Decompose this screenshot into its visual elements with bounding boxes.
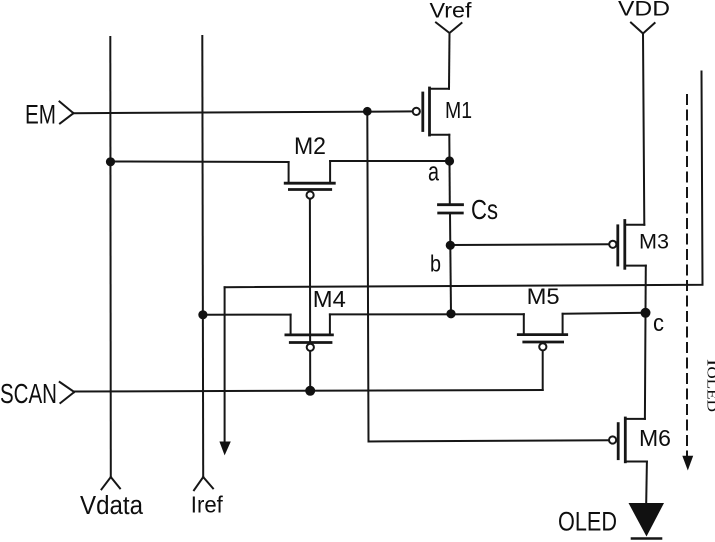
terminal fork EM	[60, 102, 74, 124]
wire EM to M6 gate	[369, 440, 609, 441]
wire capacitor to node b	[449, 213, 451, 245]
junction dot SCAN / gates	[305, 386, 315, 396]
svg-text:M5: M5	[527, 284, 560, 309]
wire Iref vertical	[201, 36, 204, 477]
wire M5 gate riser	[542, 351, 544, 391]
wire node c to M6	[644, 313, 647, 419]
svg-text:EM: EM	[25, 99, 56, 129]
svg-text:M2: M2	[294, 133, 326, 160]
transistor M1	[413, 88, 450, 161]
wire node b to M3 gate	[450, 243, 609, 246]
svg-text:M1: M1	[445, 97, 472, 123]
transistor M3	[609, 221, 646, 313]
junction dot EM branch	[363, 107, 372, 116]
transistor M5	[518, 314, 566, 351]
svg-text:VDD: VDD	[618, 0, 670, 21]
svg-text:M3: M3	[639, 230, 669, 254]
dashed current arrow IOLED	[686, 95, 688, 456]
svg-text:c: c	[653, 310, 664, 337]
svg-text:SCAN: SCAN	[0, 378, 57, 409]
transistor M2	[285, 161, 334, 199]
svg-text:Vdata: Vdata	[80, 492, 144, 520]
wire EM horizontal	[74, 111, 414, 113]
wire long horizontal mid (to right rail)	[225, 72, 703, 288]
wire M2 gate to SCAN	[309, 199, 311, 391]
terminal fork Iref	[194, 477, 213, 490]
wire Vdata vertical	[109, 37, 112, 477]
svg-text:OLED: OLED	[558, 507, 617, 537]
wire SCAN horizontal	[74, 390, 542, 392]
transistor M4	[286, 314, 333, 351]
junction dot b / M4-M5 row	[446, 309, 455, 318]
junction dot node c	[641, 308, 651, 318]
wire EM vertical branch	[367, 111, 368, 441]
junction dot node a	[445, 156, 454, 165]
wire M2 to node a	[330, 160, 449, 162]
terminal fork VDD	[631, 23, 655, 34]
svg-text:IOLED: IOLED	[704, 359, 715, 412]
terminal fork SCAN	[60, 382, 75, 403]
junction dot node b	[446, 241, 455, 250]
svg-text:Iref: Iref	[191, 492, 223, 518]
wire node a to capacitor	[449, 161, 451, 205]
svg-text:Vref: Vref	[430, 0, 472, 23]
transistor M6	[609, 418, 647, 462]
wire arrow line down from mid rail	[224, 287, 226, 444]
wire Vref vertical	[448, 33, 451, 89]
terminal fork Vdata	[102, 477, 121, 489]
svg-text:b: b	[430, 251, 441, 277]
capacitor Cs	[439, 205, 463, 213]
junction dot Vdata / M2 row	[106, 157, 115, 166]
wire M5 to node c	[563, 313, 646, 314]
wire node-a horizontal	[111, 161, 289, 164]
svg-text:Cs: Cs	[471, 194, 498, 225]
terminal fork Vref	[436, 23, 462, 34]
junction dot Iref / M4 row	[198, 310, 207, 319]
arrowhead solid	[219, 442, 230, 456]
svg-text:M4: M4	[313, 286, 346, 312]
svg-text:a: a	[428, 157, 440, 187]
svg-text:M6: M6	[639, 425, 671, 451]
diode OLED	[629, 503, 665, 537]
wire M6 to OLED	[645, 462, 648, 504]
wire VDD vertical	[643, 34, 644, 225]
wire M4 to M5	[330, 313, 524, 315]
wire node b down	[449, 245, 452, 313]
wire row M4-M5 left (Iref to M4)	[203, 314, 291, 316]
